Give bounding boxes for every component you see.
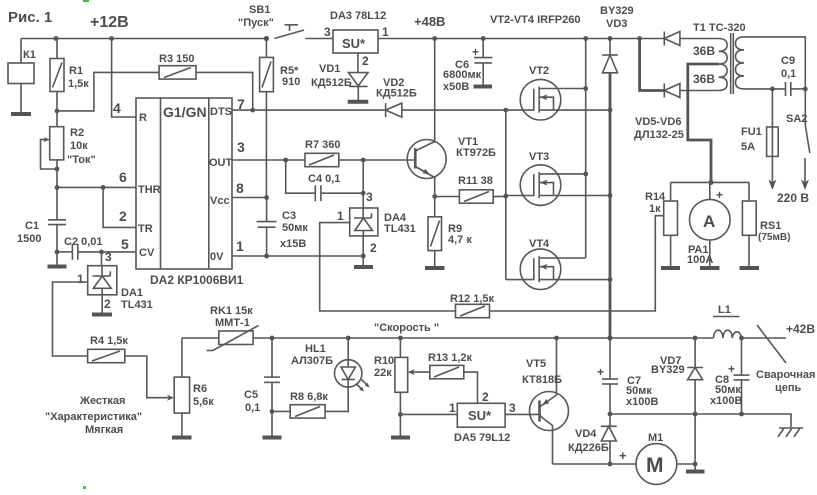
svg-text:+48В: +48В	[414, 14, 445, 29]
thermistor RK1 15k MMT-1	[207, 305, 259, 351]
junction THR node left	[55, 185, 60, 190]
ground C1	[48, 265, 67, 269]
op-amp DA1 TL431	[77, 250, 153, 311]
svg-text:Т1 ТС-320: Т1 ТС-320	[693, 22, 746, 34]
diode VD7 BY329	[651, 338, 703, 414]
svg-text:6: 6	[119, 169, 127, 185]
relay K1	[8, 39, 36, 113]
wire speed line RK1 to L1	[253, 337, 713, 339]
resistor R1 1.5k	[50, 39, 89, 111]
junction VD7 top	[693, 336, 698, 341]
wire VT5 collector to M1	[553, 463, 637, 465]
junction VT4 source	[608, 277, 613, 282]
svg-text:1: 1	[77, 272, 84, 286]
svg-text:2: 2	[104, 297, 111, 311]
svg-text:910: 910	[282, 76, 300, 88]
transistor VT2 IRFP260	[520, 65, 610, 120]
capacitor C4 0.1	[286, 160, 364, 201]
svg-text:1,5к: 1,5к	[68, 78, 89, 90]
junction R1 bottom	[55, 109, 60, 114]
resistor R12 1.5k	[450, 293, 495, 318]
svg-text:КД512Б: КД512Б	[311, 77, 352, 89]
svg-text:R2: R2	[70, 127, 84, 139]
svg-text:С3: С3	[282, 210, 296, 222]
junction DTS/R3	[250, 108, 255, 113]
svg-text:+12В: +12В	[90, 14, 129, 31]
svg-text:DTS: DTS	[210, 106, 232, 118]
ground VD1	[348, 100, 369, 104]
ground DA1	[92, 313, 112, 317]
capacitor C3 50mk x15V	[257, 198, 309, 257]
svg-text:220 В: 220 В	[777, 191, 809, 205]
junction FU1 top	[770, 87, 775, 92]
ground R14	[661, 266, 680, 270]
svg-text:4,7 к: 4,7 к	[448, 234, 472, 246]
scan artifact green bottom	[83, 486, 86, 489]
transistor VT4 IRFP260	[506, 238, 610, 290]
svg-text:10к: 10к	[70, 140, 88, 152]
junction DA5 pin1 node	[398, 412, 403, 417]
wire DA3 out to +48V bus	[378, 38, 664, 40]
svg-text:VT2-VT4 IRFP260: VT2-VT4 IRFP260	[490, 14, 580, 26]
svg-text:2: 2	[482, 390, 489, 404]
wire THR to TR	[103, 187, 136, 227]
svg-text:VD1: VD1	[319, 63, 340, 75]
wire center tap down	[688, 64, 719, 182]
junction source bus top	[608, 36, 613, 41]
transistor VT5 КТ818Б	[522, 338, 569, 464]
potentiometer R2 10k "Ток"	[41, 111, 96, 187]
svg-text:36В: 36В	[693, 44, 715, 58]
text Жесткая Характеристика Мягкая	[45, 395, 142, 436]
diode VD6 ДЛ132-25	[634, 84, 684, 142]
junction CV/DA1	[99, 250, 104, 255]
junction C6 top	[481, 36, 486, 41]
resistor R4 1.5k	[88, 335, 129, 363]
svg-text:КД512Б: КД512Б	[376, 88, 417, 100]
junction C7 bottom	[608, 412, 613, 417]
svg-text:+: +	[472, 45, 479, 59]
svg-text:R12 1,5к: R12 1,5к	[450, 293, 495, 305]
svg-text:VT5: VT5	[526, 358, 546, 370]
wire source bus	[609, 39, 611, 339]
svg-text:R10: R10	[374, 355, 394, 367]
svg-text:0,1: 0,1	[245, 402, 260, 414]
wire DA1 pin1 to R4	[53, 282, 88, 356]
junction M1 right	[693, 462, 698, 467]
capacitor C6 6800mk x50V	[443, 39, 492, 94]
junction C8 bottom	[739, 412, 744, 417]
svg-text:VD4: VD4	[575, 428, 597, 440]
svg-text:DA2 КР1006ВИ1: DA2 КР1006ВИ1	[150, 273, 244, 287]
junction C1/CV	[55, 250, 60, 255]
potentiometer R6 5.6k	[174, 338, 214, 436]
svg-text:36В: 36В	[693, 72, 715, 86]
junction DA4 pin2 / 0V	[361, 254, 366, 259]
svg-text:CV: CV	[139, 247, 155, 259]
potentiometer R10 22k	[374, 338, 408, 436]
inductor L1	[713, 304, 742, 338]
capacitor C9 0.1	[781, 55, 805, 96]
junction C5 tap	[270, 336, 275, 341]
junction center tap bottom	[708, 180, 713, 185]
junction VD4 bottom	[608, 462, 613, 467]
svg-text:VT2: VT2	[529, 65, 549, 77]
svg-text:Мягкая: Мягкая	[85, 424, 123, 436]
svg-text:Vcc: Vcc	[210, 195, 230, 207]
junction DA4 pin3 branch	[361, 158, 366, 163]
junction VD6 branch top	[637, 36, 642, 41]
capacitor C5 0.1	[244, 338, 280, 436]
svg-text:6800мк: 6800мк	[443, 69, 482, 81]
transistor VT3 IRFP260	[506, 151, 610, 205]
wire PA1 top rail	[671, 181, 749, 183]
svg-text:G1/GN: G1/GN	[163, 104, 207, 120]
junction VD7 bottom	[693, 412, 698, 417]
wire VT1 collector to +48 bus	[434, 39, 436, 143]
wire L1 to +42V	[742, 337, 787, 339]
wire Vcc	[232, 197, 267, 199]
svg-text:"Характеристика": "Характеристика"	[45, 411, 142, 423]
svg-text:R: R	[139, 112, 147, 124]
wire THR line	[57, 186, 136, 188]
junction VT5 emitter on speed line	[554, 336, 559, 341]
svg-text:R13 1,2к: R13 1,2к	[428, 352, 473, 364]
svg-text:3: 3	[509, 401, 516, 415]
capacitor C8 50mk x100V	[710, 338, 750, 414]
junction VT1 collector top	[432, 36, 437, 41]
svg-text:TL431: TL431	[121, 299, 153, 311]
wire DA5 pin3 to VT5 base	[505, 413, 541, 415]
svg-text:5А: 5А	[741, 141, 755, 153]
wire R1 bottom to R3 left	[57, 72, 159, 111]
svg-text:ММТ-1: ММТ-1	[215, 317, 250, 329]
junction gate bus mid	[503, 194, 508, 199]
svg-text:АЛ307Б: АЛ307Б	[291, 355, 333, 367]
pin 4 R wire	[112, 39, 136, 118]
fuse FU1 5A	[741, 89, 778, 190]
resistor R14 1k	[645, 182, 678, 266]
text Сварочная цепь	[756, 369, 815, 394]
svg-text:SU*: SU*	[468, 408, 492, 423]
junction R8 tap	[270, 409, 275, 414]
wire DA4 pin1 to R12	[320, 223, 456, 311]
wire welding pointer diagonal	[757, 325, 786, 363]
junction C3 bottom	[264, 254, 269, 259]
capacitor C1 1500	[17, 187, 66, 264]
transformer T1 ТС-320	[693, 22, 746, 94]
svg-text:RS1: RS1	[760, 220, 781, 232]
svg-text:FU1: FU1	[741, 126, 762, 138]
svg-text:0,1: 0,1	[781, 68, 796, 80]
junction drain bus top	[583, 36, 588, 41]
svg-text:BY329: BY329	[651, 364, 685, 376]
svg-text:TL431: TL431	[384, 223, 416, 235]
svg-text:А: А	[703, 212, 715, 231]
svg-text:100А: 100А	[687, 254, 713, 266]
switch SA2	[786, 89, 810, 190]
svg-text:VT3: VT3	[529, 151, 549, 163]
svg-text:DA5 79L12: DA5 79L12	[454, 432, 510, 444]
svg-text:х50В: х50В	[443, 81, 469, 93]
diode VD5 ДЛ132-25	[664, 32, 680, 46]
wire VD5 anode to winding top handled by bus	[680, 38, 719, 40]
junction C8 top	[739, 336, 744, 341]
svg-text:1500: 1500	[17, 233, 41, 245]
ground RS1	[740, 266, 760, 270]
svg-text:1к: 1к	[649, 203, 661, 215]
junction VT2 drain	[583, 86, 588, 91]
svg-text:OUT: OUT	[209, 157, 233, 169]
regulator DA5 79L12	[400, 390, 516, 444]
svg-text:RK1 15к: RK1 15к	[210, 305, 253, 317]
ground C6	[474, 85, 493, 89]
svg-text:К1: К1	[23, 49, 36, 61]
svg-text:R4 1,5к: R4 1,5к	[90, 335, 128, 347]
svg-text:DA3 78L12: DA3 78L12	[330, 10, 386, 22]
wire R7 to VT1 base	[339, 159, 416, 161]
wire VD6 anode to winding bottom	[680, 90, 719, 92]
svg-text:R7 360: R7 360	[305, 139, 340, 151]
wire DA4 pin2 down	[362, 236, 364, 266]
svg-text:C2 0,01: C2 0,01	[64, 236, 103, 248]
resistor R7 360	[305, 139, 340, 167]
junction SA2 top	[803, 87, 808, 92]
svg-text:R3 150: R3 150	[159, 53, 194, 65]
scan artifact green top	[83, 0, 89, 2]
svg-text:R1: R1	[69, 65, 83, 77]
svg-text:22к: 22к	[374, 367, 392, 379]
wire speed line R6 to RK1	[182, 337, 219, 339]
svg-text:"Ток": "Ток"	[67, 154, 96, 166]
resistor R8 6.8k	[272, 387, 348, 418]
junction R5 top / SB1	[264, 36, 269, 41]
junction C4 right	[361, 191, 366, 196]
resistor R5* 910	[260, 39, 301, 198]
svg-text:SA2: SA2	[786, 113, 807, 125]
wire T1 secondary top loop	[744, 37, 805, 89]
svg-text:R6: R6	[193, 383, 207, 395]
junction VT1 emitter	[432, 194, 437, 199]
transistor VT1 КТ972Б	[407, 136, 496, 197]
diode VD1 КД512Б	[311, 53, 368, 100]
wire bottom return line	[610, 414, 791, 427]
svg-text:TR: TR	[138, 223, 153, 235]
ground C5	[263, 436, 282, 440]
wire R4 to R6 wiper	[125, 356, 174, 401]
diode VD4 КД226Б	[568, 414, 617, 464]
junction R2 wiper	[55, 167, 60, 172]
svg-text:КД226Б: КД226Б	[568, 442, 609, 454]
svg-text:0V: 0V	[210, 251, 224, 263]
diode VD2 КД512Б	[376, 77, 417, 117]
svg-text:х100В: х100В	[626, 396, 658, 408]
svg-text:BY329: BY329	[600, 5, 634, 17]
junction HL1 tap	[346, 336, 351, 341]
svg-text:С5: С5	[244, 389, 258, 401]
op-amp DA4 TL431	[337, 190, 416, 255]
svg-text:8: 8	[236, 180, 244, 196]
shunt RS1 75mV	[742, 182, 790, 266]
resistor R11 38	[435, 175, 506, 203]
svg-text:2: 2	[370, 241, 377, 255]
svg-text:С9: С9	[781, 55, 795, 67]
ground PA1	[700, 266, 720, 270]
svg-text:SU*: SU*	[342, 36, 366, 51]
svg-text:R11 38: R11 38	[458, 175, 493, 187]
svg-text:HL1: HL1	[305, 343, 326, 355]
svg-text:5,6к: 5,6к	[193, 396, 214, 408]
wire VD6 branch from +48 bus	[640, 39, 665, 91]
svg-text:С4 0,1: С4 0,1	[308, 173, 340, 185]
svg-text:R14: R14	[645, 191, 666, 203]
junction R10 top	[398, 336, 403, 341]
svg-text:Сварочная: Сварочная	[756, 369, 815, 381]
wire DA4 pin3 vertical	[362, 160, 364, 208]
svg-text:ДЛ132-25: ДЛ132-25	[634, 129, 684, 141]
svg-text:VT4: VT4	[529, 238, 550, 250]
diode VD3 BY329	[600, 5, 634, 73]
ground DA4	[354, 265, 373, 269]
wire VD2 to VT2 gate	[402, 109, 534, 111]
svg-text:2: 2	[119, 208, 127, 224]
wire gate bus vertical	[505, 110, 507, 280]
svg-text:+: +	[619, 448, 627, 463]
wire R12 right to R14 tap	[490, 216, 664, 311]
wire 0V line	[232, 255, 363, 257]
svg-text:1: 1	[236, 238, 244, 254]
ground M1	[686, 470, 705, 474]
wire OUT line	[232, 159, 305, 161]
svg-text:Жесткая: Жесткая	[79, 395, 125, 407]
junction THR/TR branch	[101, 185, 106, 190]
ammeter PA1 100A	[687, 182, 730, 266]
junction OUT/C4	[283, 158, 288, 163]
resistor R3 150	[159, 53, 196, 79]
ground welding output earth	[778, 428, 803, 437]
svg-text:(75мВ): (75мВ)	[758, 232, 790, 243]
IC DA2 КР1006ВИ1 timer	[136, 98, 244, 287]
svg-text:КТ972Б: КТ972Б	[456, 147, 496, 159]
svg-text:SB1: SB1	[249, 4, 270, 16]
svg-text:DA1: DA1	[121, 287, 143, 299]
capacitor C7 50mk x100V	[597, 338, 658, 414]
wire DTS line	[232, 109, 386, 111]
svg-text:+: +	[597, 365, 604, 379]
ground R9	[425, 266, 445, 270]
wire M1 right to ground	[677, 414, 695, 470]
junction VT2 source	[608, 108, 613, 113]
wire +12V top bus left	[21, 38, 266, 40]
motor M1	[636, 432, 677, 484]
switch SB1 Пуск	[238, 4, 333, 39]
svg-text:1: 1	[449, 401, 456, 415]
svg-text:3: 3	[105, 250, 112, 264]
wire DA1 pin2 to ground	[101, 295, 103, 313]
junction source bus / speed line	[607, 335, 612, 340]
svg-text:Рис. 1: Рис. 1	[8, 9, 52, 26]
junction gate bus top	[503, 108, 508, 113]
svg-text:THR: THR	[138, 184, 161, 196]
capacitor C2 0.01	[57, 236, 136, 260]
ground K1	[11, 112, 31, 116]
svg-text:VD3: VD3	[606, 18, 627, 30]
LED HL1 АЛ307Б	[291, 338, 370, 392]
svg-text:цепь: цепь	[775, 382, 802, 394]
svg-text:1: 1	[337, 209, 344, 223]
wire R3 right to DTS node	[196, 72, 253, 110]
svg-text:"Пуск": "Пуск"	[238, 17, 274, 29]
ground R10	[391, 436, 410, 440]
svg-text:М: М	[646, 454, 664, 477]
svg-text:3: 3	[237, 139, 245, 155]
svg-text:+42В: +42В	[786, 322, 815, 336]
resistor R13 1.2k	[408, 352, 478, 403]
svg-text:VD5-VD6: VD5-VD6	[635, 116, 681, 128]
svg-text:х15В: х15В	[280, 238, 306, 250]
svg-text:С1: С1	[25, 220, 39, 232]
svg-text:3: 3	[324, 25, 331, 39]
svg-text:50мк: 50мк	[282, 222, 308, 234]
ground R6	[172, 436, 192, 440]
svg-text:5: 5	[121, 236, 129, 252]
svg-text:2: 2	[362, 54, 369, 68]
svg-text:"Скорость ": "Скорость "	[374, 322, 439, 334]
svg-text:R8 6,8к: R8 6,8к	[290, 391, 328, 403]
svg-text:х100В: х100В	[710, 395, 742, 407]
junction VT3 source	[608, 193, 613, 198]
svg-text:1: 1	[382, 25, 389, 39]
svg-text:КТ818Б: КТ818Б	[522, 374, 562, 386]
wire T1 secondary bottom	[744, 88, 786, 90]
junction Vcc/R5/C3	[264, 195, 269, 200]
svg-text:+: +	[716, 188, 723, 202]
svg-text:4: 4	[113, 100, 121, 116]
junction VT3 drain	[583, 172, 588, 177]
resistor R9 4.7k	[428, 197, 472, 267]
svg-text:L1: L1	[718, 304, 731, 316]
svg-text:М1: М1	[648, 432, 663, 444]
junction top bus at K1/R1	[54, 36, 114, 41]
svg-text:3: 3	[366, 190, 373, 204]
regulator DA3 78L12	[324, 10, 389, 68]
wire drain bus	[585, 39, 587, 259]
